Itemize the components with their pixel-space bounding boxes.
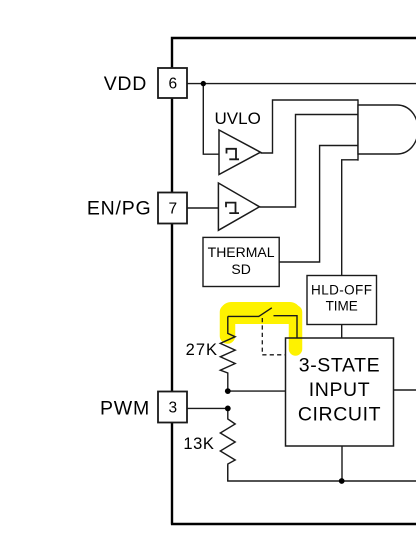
svg-text:PWM: PWM — [100, 397, 150, 419]
svg-text:3: 3 — [168, 400, 177, 417]
svg-text:HLD-OFF: HLD-OFF — [311, 283, 372, 298]
svg-text:SD: SD — [231, 261, 250, 277]
svg-text:INPUT: INPUT — [309, 379, 371, 401]
svg-text:7: 7 — [168, 200, 177, 217]
svg-text:27K: 27K — [186, 341, 218, 359]
svg-text:VDD: VDD — [104, 73, 147, 95]
svg-text:EN/PG: EN/PG — [87, 198, 152, 220]
svg-text:3-STATE: 3-STATE — [299, 355, 381, 377]
svg-text:13K: 13K — [183, 435, 214, 453]
svg-text:TIME: TIME — [326, 299, 358, 314]
svg-text:THERMAL: THERMAL — [208, 244, 275, 260]
svg-text:6: 6 — [168, 75, 177, 92]
svg-text:CIRCUIT: CIRCUIT — [298, 404, 381, 426]
svg-text:UVLO: UVLO — [215, 109, 261, 128]
